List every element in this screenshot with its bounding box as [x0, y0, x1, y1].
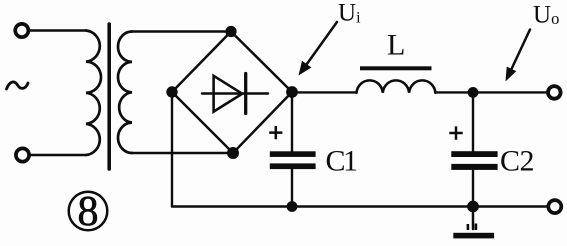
figure number circle 8 — [69, 192, 108, 231]
wire: bottom rail (ground net) — [172, 205, 547, 207]
junction node: bridge top vertex — [225, 26, 236, 37]
Ui arrow shaft — [307, 22, 338, 65]
capacitor C2 bottom lead — [472, 170, 474, 207]
Uo arrow head — [506, 67, 517, 82]
capacitor C2 top plate — [451, 151, 497, 157]
wire: primary bottom lead to bottom terminal — [30, 154, 87, 156]
transformer core — [107, 24, 111, 169]
svg-text:C1: C1 — [326, 145, 359, 178]
bridge rectifier diamond — [172, 32, 292, 154]
junction node: bridge left vertex — [166, 86, 177, 97]
wire: left vertex down to ground rail — [171, 92, 173, 207]
capacitor C1 top plate — [270, 151, 316, 157]
inductor L core bar — [360, 66, 432, 70]
svg-text:C2: C2 — [500, 144, 534, 177]
wire: Ui node to inductor — [292, 91, 357, 93]
inductor L winding — [357, 80, 436, 92]
diode D triangle — [214, 76, 243, 112]
wire: inductor to output node — [435, 91, 547, 93]
capacitor C2 bottom plate — [451, 164, 497, 170]
Uo arrow shaft — [512, 30, 531, 70]
ground symbol bar — [453, 233, 494, 239]
polarity + of C1 — [269, 126, 282, 139]
wire: top terminal to primary — [29, 29, 86, 31]
junction node Ui: bridge right vertex — [286, 86, 298, 98]
wire: secondary bottom lead to bridge bottom vertex — [132, 152, 233, 154]
transformer T primary winding — [86, 31, 101, 156]
capacitor C1 bottom plate — [270, 163, 316, 169]
capacitor C2 top lead — [472, 92, 474, 151]
capacitor C1 bottom lead — [291, 169, 293, 206]
AC source symbol ~ — [7, 82, 29, 89]
input terminal (bottom left) — [16, 148, 29, 161]
wire: secondary top lead to bridge top vertex — [132, 30, 231, 32]
transformer T secondary winding — [118, 32, 132, 154]
capacitor C1 top lead — [291, 92, 293, 151]
ground symbol tick marks — [467, 224, 470, 230]
junction node: C2 bottom on rail — [467, 201, 479, 213]
svg-text:8: 8 — [78, 189, 99, 235]
output terminal (bottom right) — [548, 200, 561, 213]
diode D cathode bar — [244, 74, 247, 114]
Ui arrow head — [299, 61, 312, 76]
svg-text:L: L — [387, 28, 405, 61]
input terminal (top left) — [15, 24, 28, 37]
junction node: C1 bottom on rail — [287, 201, 298, 212]
ground lead — [472, 207, 475, 230]
output terminal (top right) — [548, 86, 561, 99]
diode D lead (inside bridge) — [202, 92, 268, 94]
junction node: C2/ground on rail — [468, 87, 479, 98]
junction node: bridge bottom vertex — [227, 147, 239, 159]
polarity + of C2 — [449, 126, 462, 139]
